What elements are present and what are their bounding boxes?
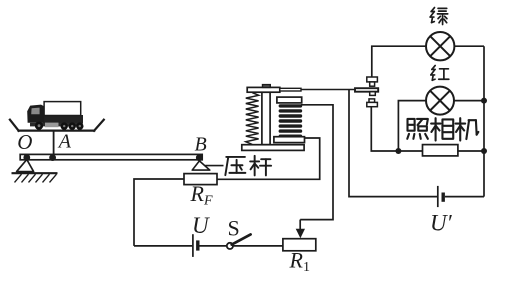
armature thin arm: [280, 88, 301, 91]
rheostat R1 body: [283, 239, 316, 251]
label 照相机 (camera): [407, 119, 428, 139]
relay spring: [246, 93, 259, 145]
wire camera to right rail: [458, 150, 484, 152]
armature bar: [247, 87, 280, 92]
wire switch to rheostat R1: [233, 245, 283, 247]
truck (vehicle being weighed): [27, 102, 83, 130]
lever beam O-B: [20, 154, 202, 159]
pivot dot at O: [23, 154, 30, 161]
upper fixed contact: [367, 77, 378, 86]
wire bottom: left corner to battery U: [134, 245, 192, 247]
label pointer line to 压杆: [205, 165, 223, 167]
label 红 (red): [431, 65, 449, 80]
wire upper contact up to green lamp: [372, 46, 426, 77]
rheostat wiper arrow: [296, 220, 305, 239]
green lamp: [426, 32, 454, 60]
wire coil bottom terminal to RF right: [217, 138, 320, 179]
right rail: [483, 46, 485, 196]
solenoid top cap: [277, 97, 302, 103]
force-sensitive resistor RF: [184, 174, 217, 185]
camera body: [423, 145, 458, 156]
armature nub: [263, 85, 271, 88]
wire coil top terminal to wiper: [300, 105, 333, 220]
wire battery to switch S: [200, 245, 227, 247]
svg-text:S: S: [228, 216, 240, 241]
solenoid bottom cap: [274, 137, 305, 143]
svg-text:U: U: [192, 213, 210, 238]
wire lower contact down and right to camera branch: [371, 107, 422, 151]
joint dot at A: [49, 154, 56, 161]
svg-text:O: O: [17, 130, 32, 154]
moving contact bar: [355, 88, 378, 92]
node dot camera / rail: [481, 148, 487, 154]
fulcrum triangle: [17, 160, 34, 172]
wire U-prime to right rail: [445, 196, 484, 198]
svg-text:A: A: [57, 131, 72, 153]
ground line with hatching: [12, 173, 58, 182]
svg-text:U′: U′: [430, 211, 453, 236]
battery U-prime short plate: [442, 193, 445, 202]
battery U-prime long plate: [437, 186, 439, 207]
label 压杆 (pressure rod): [225, 157, 245, 175]
platform support stem down to lever point A: [53, 131, 55, 154]
joint dot at B: [196, 154, 203, 161]
wire green lamp to right rail: [454, 45, 484, 47]
battery U long plate: [192, 234, 194, 257]
switch S lever: [232, 234, 251, 244]
relay support post: [262, 92, 270, 144]
solenoid coil turns: [279, 104, 303, 138]
wire RF left to bottom loop: [134, 179, 184, 246]
label 绿 (green): [430, 8, 448, 25]
svg-text:B: B: [195, 134, 207, 156]
node dot red lamp / rail: [481, 98, 487, 104]
pressure-rod triangle under B: [192, 161, 210, 170]
moving contact lower tip: [370, 92, 376, 96]
switch S pivot: [227, 243, 233, 249]
relay base: [242, 145, 304, 151]
wire red lamp to right rail: [454, 100, 484, 102]
node dot red/camera branch: [395, 148, 401, 154]
red lamp: [426, 87, 454, 115]
lower fixed contact: [367, 99, 378, 107]
wire arm junction down to battery U-prime: [349, 90, 437, 197]
battery U short plate: [196, 240, 199, 250]
wire armature arm to contact bar: [301, 89, 355, 91]
weighing platform tray: [10, 120, 104, 131]
wire up to red lamp: [398, 101, 426, 151]
